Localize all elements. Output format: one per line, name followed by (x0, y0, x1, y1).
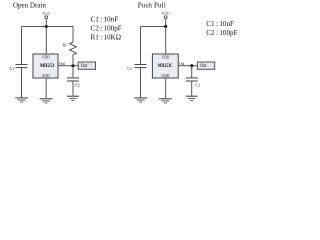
ground under C1 (right circuit) (134, 98, 147, 102)
ground under U1 GND (left circuit) (40, 99, 53, 103)
capacitor C1 (right circuit) (127, 65, 146, 72)
wire top rail (left circuit) (22, 26, 74, 28)
junction: output node (left circuit) (71, 64, 74, 67)
svg-text:MH253: MH253 (40, 64, 55, 69)
svg-text:C1: C1 (10, 66, 15, 71)
junction: VCC node (right circuit) (164, 25, 167, 28)
wire GND pin (left circuit) (45, 78, 47, 98)
terminal box Out (left circuit) (78, 62, 95, 69)
junction: VCC node (left circuit) (45, 25, 48, 28)
capacitor C2 (right circuit) (186, 78, 200, 88)
wire output (left circuit) (58, 65, 78, 67)
svg-text:Open Drain: Open Drain (13, 2, 46, 10)
svg-text:R1 : 10KΩ: R1 : 10KΩ (91, 33, 122, 41)
svg-text:VDD: VDD (42, 56, 50, 60)
capacitor C2 (left circuit) (67, 78, 80, 88)
power VCC (left circuit) (43, 12, 51, 27)
ground under C2 (left circuit) (67, 96, 79, 100)
wire junction to C2 (right circuit) (191, 66, 193, 78)
svg-text:Out: Out (200, 64, 207, 69)
svg-text:C1 : 10nF: C1 : 10nF (206, 20, 234, 28)
wire C1 to ground (right circuit) (140, 68, 142, 98)
svg-text:C2 : 100pF: C2 : 100pF (206, 29, 237, 37)
ground under C1 (left circuit) (15, 98, 28, 102)
wire C2 to ground (left circuit) (72, 81, 74, 96)
wire GND pin (right circuit) (165, 78, 167, 98)
wire right vertical to R1 (left circuit) (72, 27, 74, 43)
svg-text:VCC: VCC (162, 12, 170, 16)
svg-text:C1 : 10nF: C1 : 10nF (91, 16, 119, 24)
svg-text:GND: GND (161, 74, 169, 78)
capacitor C1 (left circuit) (10, 65, 28, 72)
svg-text:C2 : 100pF: C2 : 100pF (91, 25, 122, 33)
svg-text:R1: R1 (63, 43, 67, 47)
svg-text:GND: GND (42, 74, 50, 78)
ground under U2 GND (right circuit) (159, 99, 172, 103)
wire top rail (right circuit) (141, 26, 166, 28)
wire output (right circuit) (178, 65, 197, 67)
junction: output node (right circuit) (190, 64, 193, 67)
terminal box Out (right circuit) (197, 62, 214, 69)
svg-text:VCC: VCC (43, 12, 51, 16)
resistor R1 (63, 42, 77, 66)
wire junction to C2 (left circuit) (72, 66, 74, 78)
svg-text:MH253C: MH253C (158, 64, 173, 69)
wire left vertical to C1 (right circuit) (140, 27, 142, 65)
oscillator U2 MH253C (152, 54, 178, 78)
wire C1 to ground (left circuit) (21, 68, 23, 98)
power VCC (right circuit) (162, 12, 170, 27)
svg-text:Out: Out (81, 64, 88, 69)
wire VDD drop (right circuit) (165, 27, 167, 55)
oscillator U1 MH253 (33, 54, 58, 78)
wire C2 to ground (right circuit) (191, 81, 193, 96)
svg-text:VDD: VDD (161, 56, 169, 60)
svg-text:Push Pull: Push Pull (138, 2, 166, 10)
svg-text:C1: C1 (127, 66, 132, 71)
wire VDD drop (left circuit) (45, 27, 47, 55)
svg-text:C2: C2 (195, 83, 200, 88)
ground under C2 (right circuit) (186, 96, 198, 100)
svg-text:C2: C2 (75, 83, 80, 88)
wire left vertical to C1 (left circuit) (21, 27, 23, 65)
